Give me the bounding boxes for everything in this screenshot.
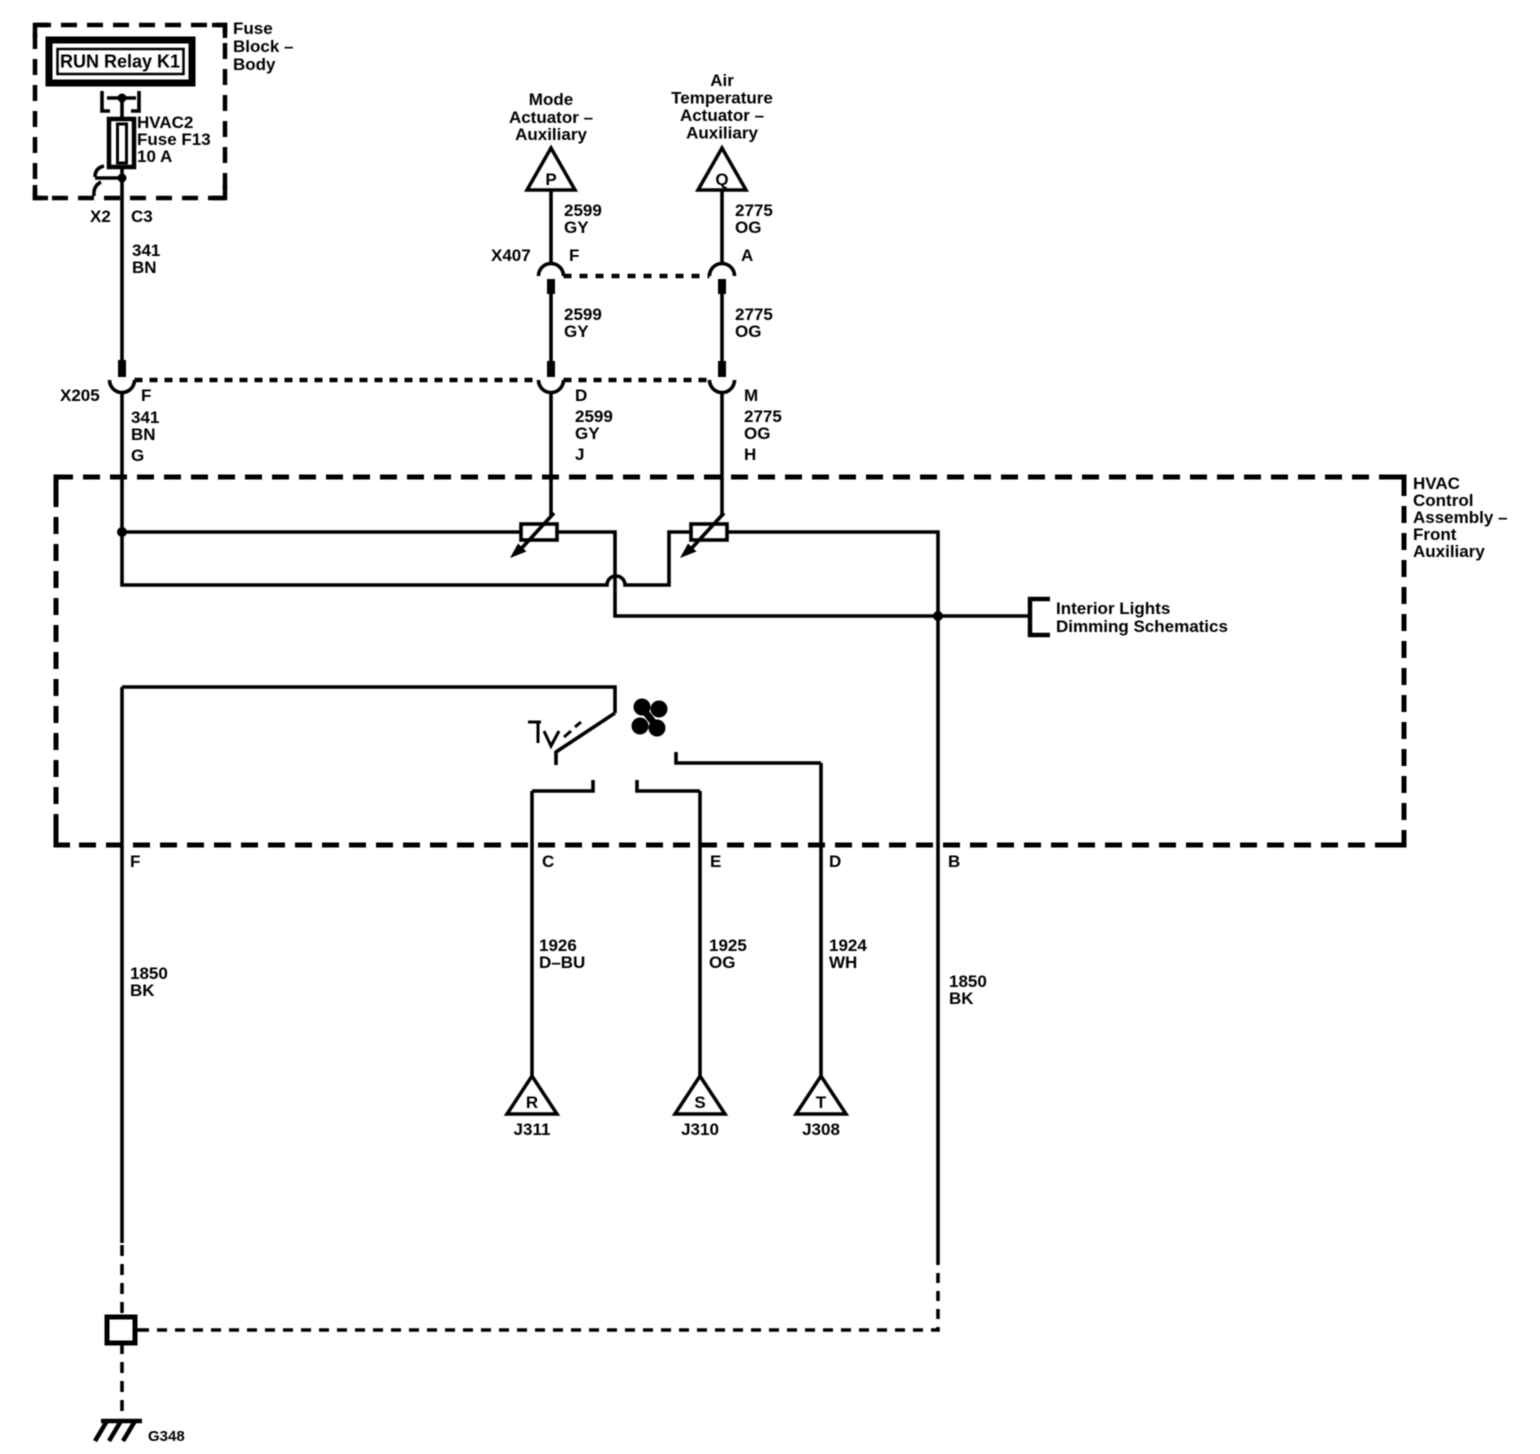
label 1850 BK right	[949, 972, 987, 1008]
svg-text:OG: OG	[744, 424, 770, 443]
svg-text:F: F	[130, 852, 140, 871]
label Fuse Block Body	[233, 19, 293, 74]
svg-text:GY: GY	[564, 322, 589, 341]
svg-text:Auxiliary: Auxiliary	[686, 124, 758, 143]
label HVAC Control Assembly Front Auxiliary	[1413, 474, 1508, 561]
svg-text:X407: X407	[491, 246, 531, 265]
potentiometer mode	[510, 513, 557, 558]
svg-text:GY: GY	[575, 424, 600, 443]
svg-text:Fuse: Fuse	[233, 19, 273, 38]
connector X205 pin F male	[118, 360, 126, 377]
svg-text:BN: BN	[132, 258, 157, 277]
wire D pin down	[819, 763, 823, 1077]
svg-text:RUN Relay K1: RUN Relay K1	[60, 52, 180, 72]
svg-text:10 A: 10 A	[137, 147, 172, 166]
label 1926 D-BU	[539, 936, 585, 972]
svg-text:S: S	[694, 1093, 705, 1112]
junction dot node G	[117, 527, 127, 537]
wire Q down	[720, 190, 724, 264]
svg-text:F: F	[569, 246, 579, 265]
wire lower branch with hop	[122, 532, 691, 585]
svg-text:Actuator –: Actuator –	[680, 106, 764, 125]
ground G348	[95, 1421, 142, 1441]
triangle Q	[698, 148, 746, 190]
svg-text:M: M	[744, 386, 758, 405]
label Air Temperature Actuator Auxiliary	[671, 71, 773, 143]
label 1924 WH	[829, 936, 867, 972]
label 2775 OG mid	[735, 305, 773, 341]
wire M to pot2	[720, 392, 724, 516]
svg-text:F: F	[141, 386, 151, 405]
svg-text:C3: C3	[131, 207, 153, 226]
svg-text:X205: X205	[60, 386, 100, 405]
wire to interior lights	[938, 614, 1030, 618]
svg-text:J308: J308	[802, 1120, 840, 1139]
svg-text:T: T	[816, 1093, 827, 1112]
label 341 BN G	[131, 408, 159, 465]
fuse box corner dashes	[35, 25, 48, 38]
svg-text:J311: J311	[514, 1120, 551, 1139]
junction dot right	[933, 611, 943, 621]
HVAC box corner dashes	[56, 477, 70, 491]
svg-text:D: D	[575, 386, 587, 405]
connector X407 dashed line	[564, 274, 710, 279]
svg-text:Auxiliary: Auxiliary	[1413, 542, 1485, 561]
potentiometer air temp	[680, 513, 727, 558]
interior lights bracket	[1030, 599, 1050, 635]
wire X205 F to junction	[120, 392, 124, 532]
svg-text:C: C	[542, 852, 554, 871]
relay K1 terminal bracket	[102, 91, 139, 111]
switch contact E	[637, 780, 700, 791]
svg-text:Block –: Block –	[233, 37, 293, 56]
svg-text:H: H	[744, 445, 756, 464]
svg-text:Dimming Schematics: Dimming Schematics	[1056, 617, 1228, 636]
svg-text:G: G	[131, 446, 144, 465]
blower switch blade	[556, 713, 615, 765]
triangle S	[675, 1076, 725, 1114]
connector X407 terminal F female	[539, 264, 564, 277]
svg-text:Body: Body	[233, 55, 276, 74]
svg-text:GY: GY	[564, 218, 589, 237]
label Mode Actuator Auxiliary	[509, 90, 593, 144]
svg-text:Interior Lights: Interior Lights	[1056, 599, 1170, 618]
wire fuse down through border	[120, 167, 124, 360]
connector X407 pin F male	[547, 279, 555, 294]
svg-text:D: D	[829, 852, 841, 871]
switch linkage symbol	[528, 722, 581, 746]
svg-text:OG: OG	[709, 953, 735, 972]
svg-text:BK: BK	[130, 981, 155, 1000]
connector X205 pin M male	[718, 361, 726, 377]
svg-text:OG: OG	[735, 218, 761, 237]
label HVAC2 Fuse F13 10 A	[137, 113, 211, 166]
label 1925 OG	[709, 936, 747, 972]
wire relay to fuse	[120, 98, 124, 119]
svg-text:D–BU: D–BU	[539, 953, 585, 972]
triangle R	[507, 1076, 557, 1114]
wire E pin down	[698, 791, 702, 1077]
wire F pin down solid	[120, 687, 124, 1243]
wire D to pot1	[549, 392, 553, 516]
wire switch feed	[122, 687, 615, 713]
svg-text:BN: BN	[131, 425, 156, 444]
label 2775 OG top	[735, 201, 773, 237]
svg-text:E: E	[710, 852, 721, 871]
wire C pin down	[530, 791, 534, 1077]
label Interior Lights Dimming Schematics	[1056, 599, 1228, 636]
svg-text:X2: X2	[90, 207, 111, 226]
triangle P	[527, 148, 575, 190]
wire F to D	[549, 294, 553, 361]
svg-text:BK: BK	[949, 989, 974, 1008]
label 2599 GY low	[575, 407, 613, 443]
svg-text:Mode: Mode	[529, 90, 573, 109]
junction dot relay terminal	[118, 94, 127, 103]
connector X205 dashed line right	[564, 378, 710, 383]
wire B dashed to jumper	[147, 1255, 938, 1330]
connector X407 pin A male	[718, 279, 726, 294]
svg-text:J310: J310	[681, 1120, 719, 1139]
HVAC control assembly dashed box	[56, 477, 1404, 845]
svg-text:WH: WH	[829, 953, 857, 972]
fuse F13	[109, 119, 134, 167]
connector X205 dashed line left	[135, 378, 539, 383]
wire pot2 to right corner	[727, 532, 938, 616]
svg-text:A: A	[741, 246, 753, 265]
relay K1 box	[49, 40, 192, 83]
wire F dashed to connector	[120, 1245, 124, 1316]
blower motor fan symbol	[632, 699, 668, 737]
svg-text:R: R	[526, 1093, 538, 1112]
wire below connector dashed	[120, 1343, 124, 1421]
svg-text:B: B	[948, 852, 960, 871]
connector X205 terminal M female	[710, 380, 735, 393]
connector X407 terminal A female	[710, 264, 735, 277]
wire B pin down solid	[936, 616, 940, 1255]
connector X205 terminal D female	[539, 380, 564, 393]
wire pot1 to corner	[557, 532, 938, 616]
junction dot splice	[118, 174, 127, 183]
label 2775 OG low	[744, 407, 782, 443]
stub connector box right	[135, 1328, 147, 1332]
fuse block body dashed box	[35, 25, 225, 198]
label 341 BN	[132, 241, 160, 277]
svg-text:Q: Q	[715, 170, 728, 189]
wire A to M	[720, 294, 724, 361]
svg-text:Auxiliary: Auxiliary	[515, 125, 587, 144]
wire P down	[549, 190, 553, 264]
wire junction to pot1	[122, 530, 521, 534]
svg-text:P: P	[545, 170, 556, 189]
label 1850 BK left	[130, 964, 168, 1000]
label 2599 GY mid	[564, 305, 602, 341]
label 2599 GY top	[564, 201, 602, 237]
svg-text:Temperature: Temperature	[671, 89, 773, 108]
svg-text:G348: G348	[148, 1428, 185, 1445]
switch contact C	[532, 780, 593, 791]
svg-text:OG: OG	[735, 322, 761, 341]
connector X205 pin D male	[547, 361, 555, 377]
switch contact D side	[676, 752, 821, 763]
svg-text:Air: Air	[710, 71, 734, 90]
svg-text:J: J	[575, 445, 584, 464]
connector X205 terminal F female	[110, 380, 135, 393]
inline connector box	[107, 1317, 135, 1343]
splice hook symbol	[94, 166, 122, 196]
triangle T	[796, 1076, 846, 1114]
